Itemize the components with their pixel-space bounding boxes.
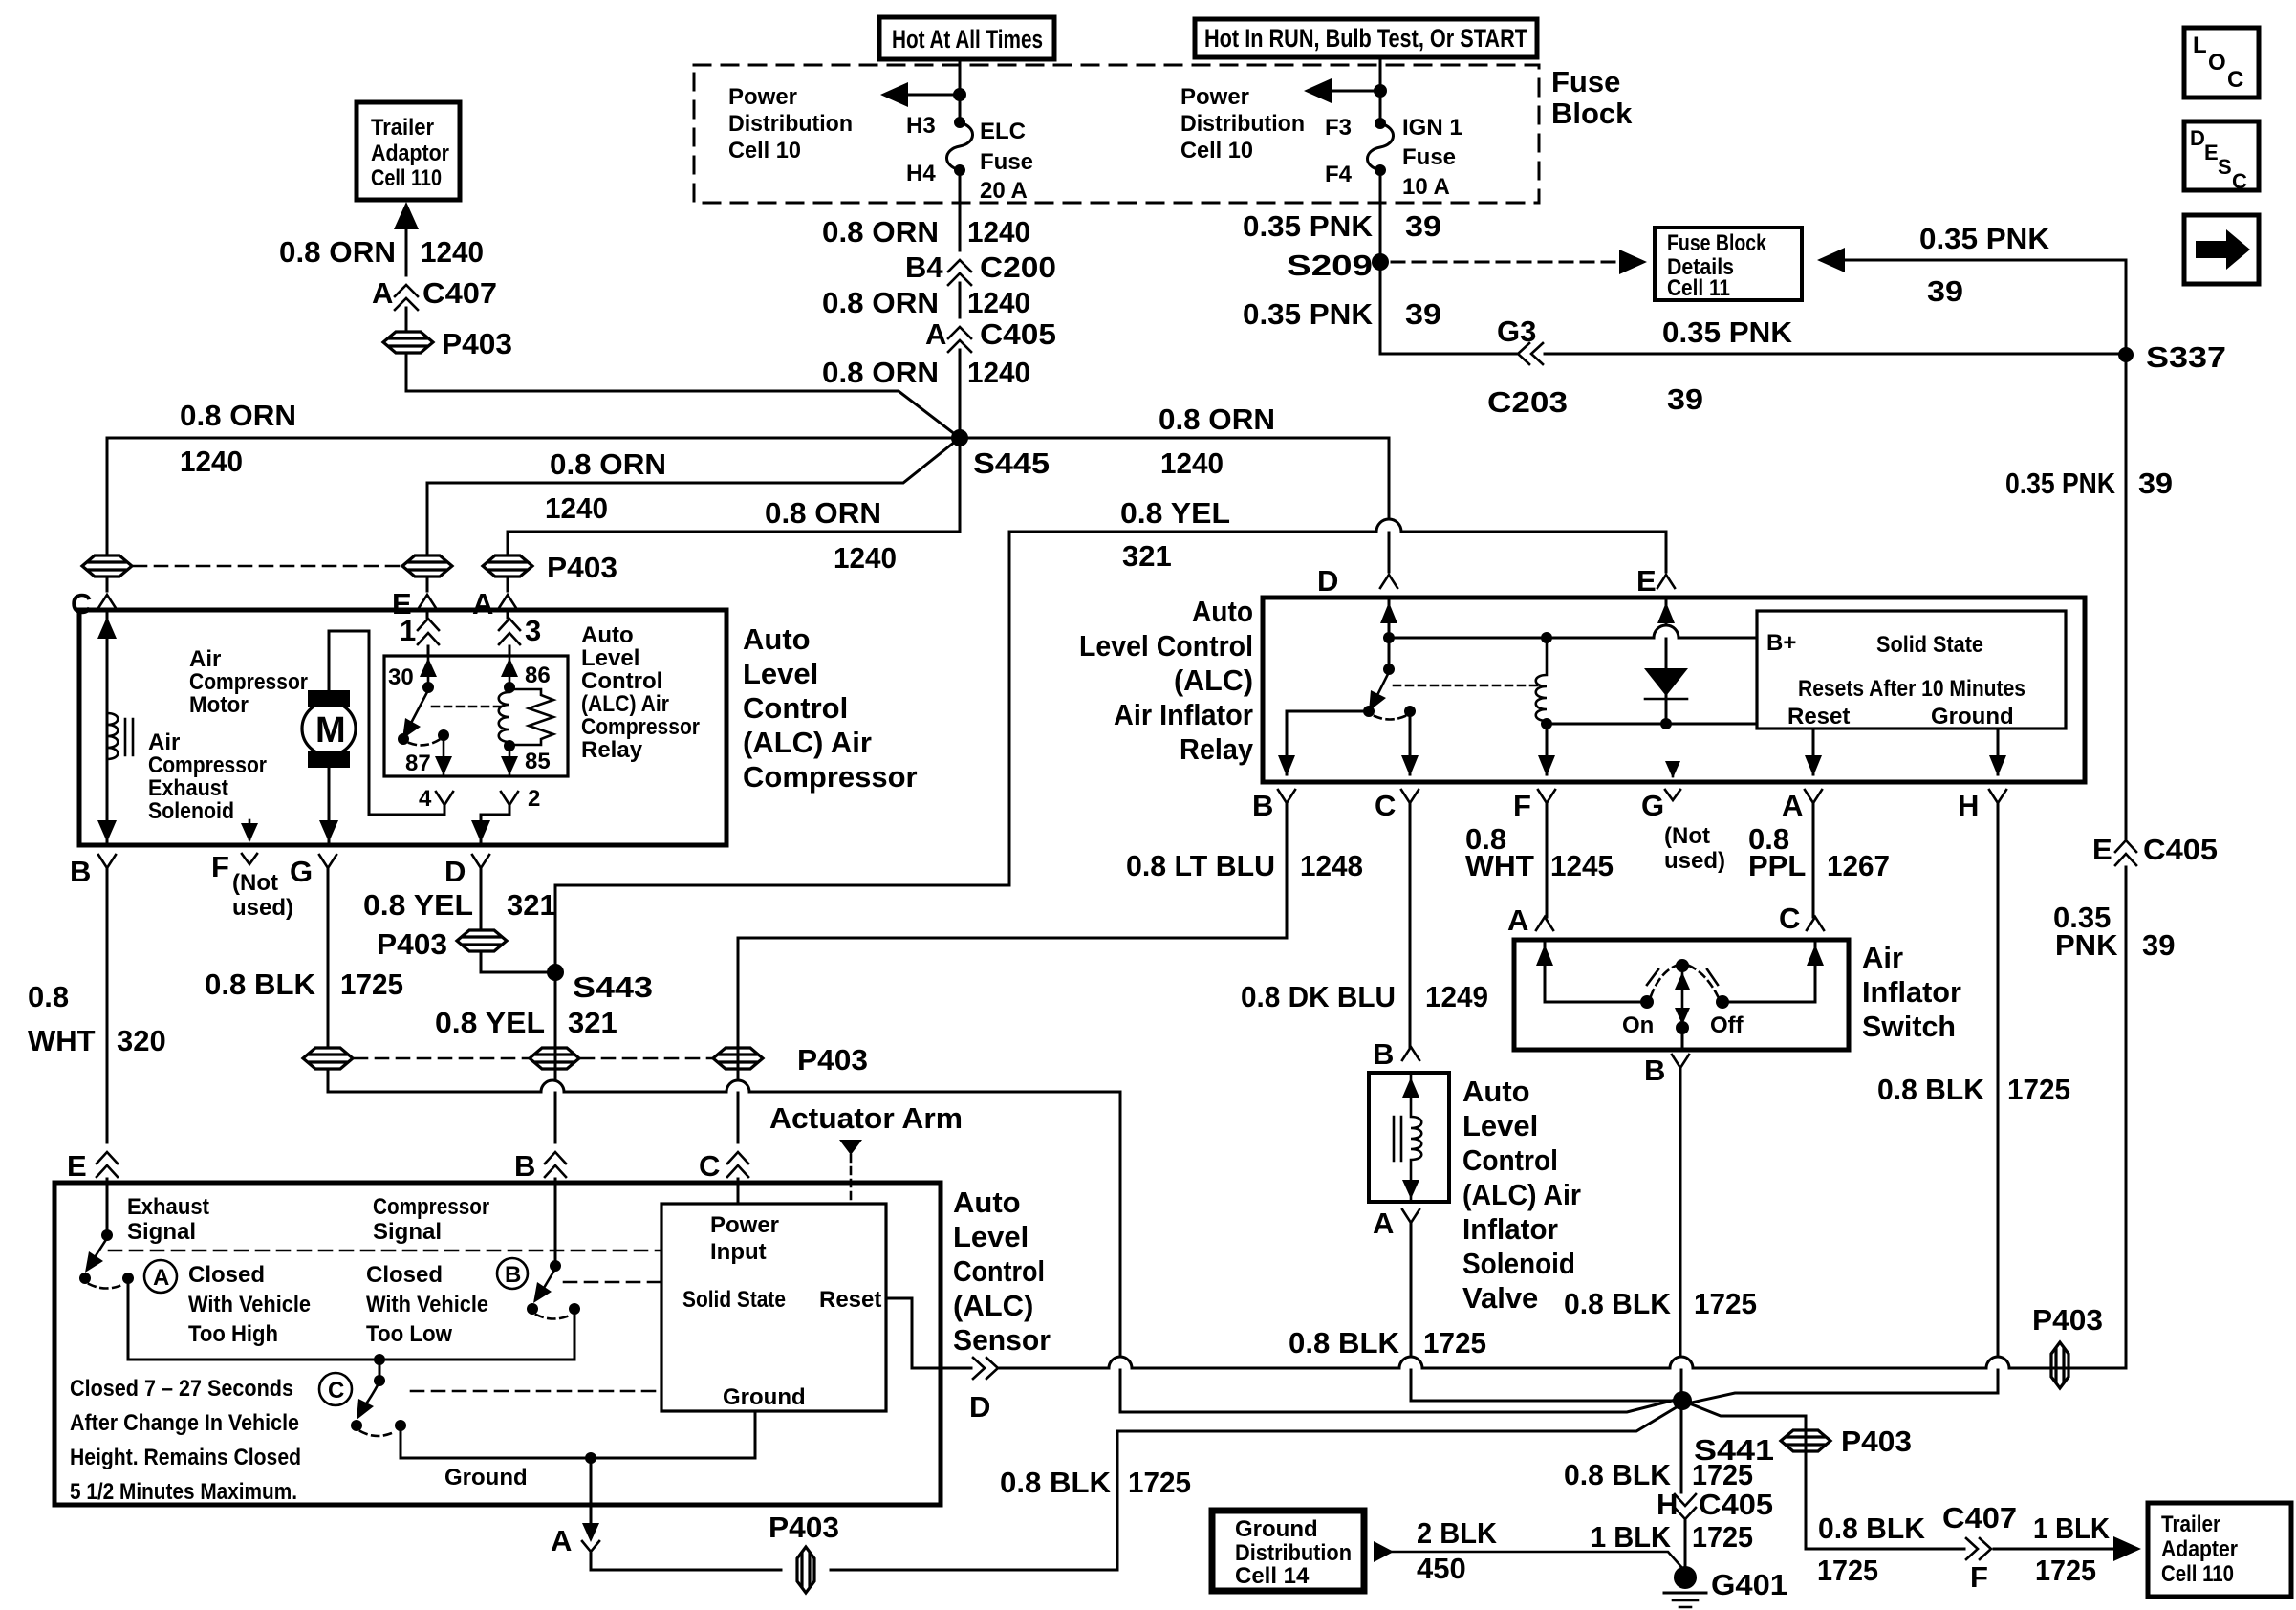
svg-text:1240: 1240 [1160,446,1224,480]
svg-text:On: On [1622,1012,1654,1038]
svg-text:Solid State: Solid State [1876,632,1983,658]
relay switch arm 30-87 [398,690,449,745]
box: Ground Distribution Cell 14 [1212,1511,1364,1591]
fuse block dashed box [694,65,1539,203]
pin F stub (not used) [241,820,258,842]
wire: S443 up to YEL junction [555,532,1009,972]
label: 0.35 PNK 39 (top right) [1919,222,2050,308]
svg-text:Compressor: Compressor [189,669,308,695]
connector pin 1 (double chevron) [400,614,439,647]
svg-text:Actuator Arm: Actuator Arm [769,1101,963,1135]
svg-text:Compressor: Compressor [581,714,700,740]
wire: main 0.8 ORN bus left of S445 [107,437,960,440]
svg-text:Motor: Motor [189,692,249,718]
svg-text:Signal: Signal [127,1219,196,1245]
svg-text:Ground: Ground [1235,1516,1318,1542]
sensor switch C (timer) [351,1360,406,1436]
svg-text:Distribution: Distribution [728,111,853,137]
svg-text:Power: Power [1180,84,1249,110]
svg-text:A: A [925,317,946,351]
svg-text:E: E [67,1149,87,1183]
pin D of compressor [444,855,489,930]
label: 2 BLK 450 [1417,1516,1498,1585]
svg-text:Distribution: Distribution [1180,111,1305,137]
hop bus over G-wire vertical [1109,1357,1132,1368]
svg-text:Cell 10: Cell 10 [1180,138,1253,163]
label: 0.8 PPL 1267 [1748,822,1890,882]
box: LOC [2184,28,2259,98]
svg-text:(ALC): (ALC) [1174,664,1253,697]
svg-text:G3: G3 [1497,315,1536,348]
svg-text:1240: 1240 [967,356,1030,389]
svg-text:0.35 PNK: 0.35 PNK [1919,222,2050,255]
svg-text:With Vehicle: With Vehicle [188,1292,311,1317]
wire: 0.8 ORN 1240 from fuse to S445 [959,170,962,438]
svg-text:Power: Power [728,84,797,110]
box: compressor relay [384,656,568,776]
svg-text:Closed: Closed [366,1262,443,1288]
svg-text:Switch: Switch [1862,1010,1956,1043]
node: rail junction [374,1354,385,1365]
svg-text:320: 320 [117,1024,166,1057]
svg-text:C203: C203 [1487,385,1568,419]
sensor dashed line compressor signal [564,1281,661,1284]
box: Trailer Adaptor Cell 110 [357,102,460,200]
svg-text:Signal: Signal [373,1219,442,1245]
pin H of inflator relay [1958,789,2006,822]
svg-text:1 BLK: 1 BLK [1591,1520,1672,1554]
wire: second ORN branch to pin E [427,438,960,553]
svg-text:C405: C405 [2143,833,2218,866]
label: 0.8 BLK 1725 (H wire) [1877,1073,2070,1106]
label: Auto Level Control (ALC) Air Compressor [743,622,918,794]
box: DESC [2184,121,2259,193]
svg-text:0.8 ORN: 0.8 ORN [822,215,939,249]
svg-text:0.8 BLK: 0.8 BLK [1564,1458,1672,1491]
diode (E branch) [1644,599,1688,729]
node S209 [1287,249,1389,282]
label: Exhaust Signal [127,1194,209,1245]
connector C405 pin H [1657,1488,1773,1521]
node S441 [1673,1391,1774,1467]
label: Closed 7-27 Seconds text block [70,1376,301,1505]
box: solid state B+ [1757,611,2066,729]
svg-text:C407: C407 [1942,1501,2017,1534]
svg-text:39: 39 [1667,382,1703,416]
svg-text:Trailer: Trailer [2161,1512,2220,1537]
hop on YEL over relay D wire [1376,519,1401,532]
label: 0.8 ORN 1240 (A branch) [765,496,897,575]
fuse ELC 20A [946,117,972,176]
svg-text:C: C [1779,902,1800,935]
relay coil 86-85 [499,658,551,775]
svg-text:0.8 BLK: 0.8 BLK [205,968,316,1001]
svg-text:1 BLK: 1 BLK [2033,1512,2111,1545]
svg-text:C: C [2232,169,2247,193]
svg-text:Reset: Reset [819,1287,881,1313]
svg-text:Air: Air [189,646,221,672]
relay pin 87 wire and arrow [405,735,452,776]
svg-text:Cell 10: Cell 10 [728,138,801,163]
wire: 0.8 PPL 1267 relay A to switch C [1812,803,1815,917]
svg-text:Inflator: Inflator [1462,1212,1558,1246]
svg-text:C: C [328,1378,344,1403]
label: Power Distribution Cell 10 (left) [728,84,853,163]
wire: sensor A ground run to S441 [591,1405,1679,1570]
connector P403 (trailer ground wire) [1781,1425,1912,1458]
wire: S443 down to sensor B [554,972,557,1142]
wire: arrow to power distribution (right fuse) [1304,78,1380,103]
wire: relay switch B contact to pin B [1278,711,1369,776]
svg-text:S209: S209 [1287,249,1373,282]
svg-text:39: 39 [2142,928,2175,962]
svg-text:(ALC) Air: (ALC) Air [1462,1178,1581,1211]
box: Fuse Block Details Cell 11 [1655,228,1802,301]
circle label C [319,1373,352,1405]
pin E of sensor [67,1149,118,1183]
hop bus over valve A wire [1399,1357,1422,1368]
svg-text:Compressor: Compressor [148,752,267,778]
label: Compressor Signal [373,1194,489,1245]
label: On / Off [1622,1012,1744,1038]
svg-text:C405: C405 [980,317,1056,351]
label: Air Compressor Exhaust Solenoid [148,729,267,824]
fuse IGN 1 10A [1367,118,1393,176]
label: 0.8 ORN 1240 (E branch) [545,447,666,525]
svg-text:86: 86 [525,663,551,688]
svg-text:0.8: 0.8 [28,980,69,1013]
svg-text:Level: Level [953,1220,1029,1253]
svg-text:1725: 1725 [2007,1073,2070,1106]
svg-text:Closed 7 – 27 Seconds: Closed 7 – 27 Seconds [70,1376,293,1402]
wire: 0.8 BLK 1725 switch B to S441 [1680,1068,1681,1492]
label: 0.8 ORN 1240 (above S445) [822,356,1030,389]
svg-text:39: 39 [2138,467,2173,500]
label: ELC Fuse 20 A [980,119,1033,204]
svg-text:C: C [699,1149,720,1183]
connector P403 row 2 (G/YEL/LTBLU wires) [303,1043,868,1077]
label: Air Compressor Motor [189,646,308,718]
box: ALC Sensor [54,1183,941,1505]
svg-text:Air: Air [148,729,180,755]
svg-text:P403: P403 [547,551,617,584]
pin B of solenoid valve [1373,1037,1419,1071]
box: next-page arrow [2184,215,2259,284]
svg-text:Relay: Relay [1180,732,1254,766]
label: 0.8 BLK 1725 (G wire) [205,968,403,1001]
switch A internal wire to On contact [1536,943,1654,1009]
connector C407 pin F [1942,1501,2017,1594]
label: 0.8 ORN 1240 (trailer branch) [279,235,484,269]
svg-text:0.8 BLK: 0.8 BLK [1877,1073,1985,1106]
svg-text:0.8 DK BLU: 0.8 DK BLU [1241,980,1396,1013]
wire: P403 to S443 [481,951,555,972]
label: 0.8 BLK 1725 (S441 to C405) [1564,1458,1753,1491]
svg-text:1240: 1240 [834,541,897,575]
wire: trailer branch horizontal to S445 [406,353,960,438]
svg-text:39: 39 [1927,274,1963,308]
node: ELC feed junction [953,88,966,101]
svg-text:0.8 ORN: 0.8 ORN [765,496,881,530]
svg-text:Level: Level [581,645,639,671]
svg-text:A: A [1782,789,1803,822]
svg-text:C: C [1375,789,1396,822]
svg-text:Resets After 10 Minutes: Resets After 10 Minutes [1798,676,2025,702]
wire: sensor C pin to Power Input [737,1179,740,1204]
svg-text:F4: F4 [1325,162,1353,187]
pin A of sensor (output arrow) [551,1523,599,1557]
svg-text:Level: Level [743,657,818,690]
box: Trailer Adapter Cell 110 [2148,1503,2291,1597]
svg-text:1725: 1725 [1817,1554,1878,1587]
svg-text:Level: Level [1462,1109,1538,1142]
label: Power Distribution Cell 10 (right) [1180,84,1305,163]
svg-text:321: 321 [1122,539,1172,573]
svg-text:1725: 1725 [1692,1520,1753,1554]
pin A of solenoid valve [1373,1207,1419,1240]
svg-text:0.8 LT BLU: 0.8 LT BLU [1126,849,1275,882]
hop top rail over E wire [1654,625,1679,638]
pin C of air inflator switch [1779,902,1824,935]
svg-text:0.8 ORN: 0.8 ORN [550,447,666,481]
sensor switch B (compressor) [527,1179,580,1319]
node S445 [951,429,1050,480]
pin B of compressor (below box) [70,855,116,1142]
wire: 0.35 PNK 39 G3/C203 run to S337 [1380,353,2126,356]
svg-text:Level Control: Level Control [1079,629,1253,663]
svg-text:ELC: ELC [980,119,1026,144]
pin E of inflator relay [1636,564,1675,598]
svg-text:B: B [1373,1037,1394,1071]
svg-text:1725: 1725 [1694,1287,1757,1320]
wire: 0.8 BLK 1725 relay H to S441 [1687,803,1998,1403]
svg-text:2 BLK: 2 BLK [1417,1516,1498,1550]
label: Fuse Block [1551,65,1633,130]
label: 0.8 ORN 1240 (above C200) [822,215,1030,249]
svg-text:0.8 ORN: 0.8 ORN [822,356,939,389]
wire: 0.8 LT BLU 1248 relay B to sensor C [738,803,1287,1142]
svg-text:E: E [2204,141,2219,164]
svg-text:85: 85 [525,749,551,774]
svg-text:O: O [2208,50,2226,76]
relay D internal wire [1380,599,1397,675]
svg-text:1: 1 [400,614,416,647]
label: Closed With Vehicle Too High [188,1262,311,1347]
svg-text:Fuse: Fuse [980,149,1033,175]
svg-text:A: A [551,1524,572,1557]
wire: pin1 stub from E [426,610,429,618]
svg-text:H3: H3 [906,113,936,139]
svg-text:Too High: Too High [188,1321,278,1347]
svg-text:Reset: Reset [1787,704,1850,729]
svg-text:Distribution: Distribution [1235,1540,1352,1566]
label: 0.8 ORN 1240 (above C405) [822,286,1030,319]
pin A of compressor [472,587,516,620]
svg-text:A: A [153,1265,169,1291]
switch toggle (common) [1647,959,1718,1050]
svg-text:1248: 1248 [1300,849,1363,882]
svg-text:(ALC): (ALC) [953,1289,1033,1322]
arrow into trailer adapter [2113,1536,2141,1561]
connector C200 pin B4 [905,250,1056,285]
svg-text:Exhaust: Exhaust [148,775,228,801]
label: F3 F4 [1325,115,1353,187]
relay resistor [509,689,553,745]
box: Hot In RUN, Bulb Test, Or START [1195,19,1537,57]
node: IGN1 feed junction [1374,84,1387,98]
svg-text:L: L [2193,33,2207,58]
wire: ELC feed from Hot At All Times [959,59,962,122]
connector P403 (bus capsule) [2032,1303,2103,1388]
box: ALC Air Inflator Relay [1263,598,2085,782]
relay internal top rail to B+ [1389,637,1757,640]
svg-text:(Not: (Not [1664,823,1710,849]
label: 0.8 WHT 1245 [1465,822,1614,882]
svg-text:B: B [505,1262,521,1288]
label: Closed With Vehicle Too Low [366,1262,488,1347]
wire: Ground output to pin H [1989,729,2006,776]
pin C of compressor [71,587,116,620]
svg-text:39: 39 [1405,209,1441,243]
svg-text:0.8 ORN: 0.8 ORN [1159,402,1275,436]
svg-text:B: B [70,855,91,888]
svg-text:D: D [969,1390,990,1424]
connector: sensor D output chevrons [969,1358,998,1424]
svg-text:Relay: Relay [581,737,643,763]
label: Air Inflator Switch [1862,941,1961,1043]
svg-text:After Change In Vehicle: After Change In Vehicle [70,1410,299,1436]
svg-text:1240: 1240 [545,491,608,525]
label: 1 BLK 1725 (to trailer) [2033,1512,2111,1587]
svg-text:1249: 1249 [1425,980,1488,1013]
actuator arm dashed link [839,1140,862,1203]
svg-text:C405: C405 [1699,1488,1773,1521]
wire: Reset output to pin A [1805,729,1822,776]
switch C internal wire to Off contact [1716,943,1824,1009]
svg-text:G: G [290,855,313,888]
svg-text:0.8 BLK: 0.8 BLK [1564,1287,1672,1320]
label: 0.35 PNK 39 (right vertical lower) [2053,901,2175,962]
svg-text:Cell 110: Cell 110 [371,165,442,191]
svg-text:0.35 PNK: 0.35 PNK [2005,467,2116,500]
svg-text:WHT: WHT [1465,849,1534,882]
wire: 0.8 ORN 1240 to trailer adaptor with arrow [394,202,419,332]
svg-text:1267: 1267 [1827,849,1890,882]
svg-text:0.8 ORN: 0.8 ORN [279,235,396,269]
label: 0.8 LT BLU 1248 [1126,849,1363,882]
svg-text:F3: F3 [1325,115,1352,141]
svg-text:Valve: Valve [1462,1281,1538,1315]
label: 0.8 YEL 321 (top run) [1120,496,1230,573]
wire: exhaust solenoid branch (internal left) [97,613,117,842]
connector P403 (D wire) [377,927,507,961]
svg-text:E: E [2092,833,2112,866]
svg-text:0.35 PNK: 0.35 PNK [1662,315,1793,349]
svg-text:Compressor: Compressor [743,760,918,794]
pin B of sensor [514,1149,566,1183]
sensor dashed line exhaust signal [109,1250,661,1252]
wire: C contact to ground rail [401,1413,755,1458]
relay dashed actuate line [1394,685,1539,687]
motor M (air compressor motor) [302,690,356,768]
wire: 0.35 PNK from S337 to Fuse Block Details with arrow [1817,248,2126,838]
svg-text:Inflator: Inflator [1862,975,1961,1009]
svg-text:A: A [1507,903,1528,937]
ground G401 [1664,1566,1787,1607]
wire: C405 H to G401 [1684,1521,1687,1568]
label: 0.35 PNK 39 (right vertical upper) [2005,467,2173,500]
pin E of compressor [392,587,436,620]
node S337 [2118,340,2226,374]
svg-text:C200: C200 [980,250,1056,284]
svg-text:Auto: Auto [1192,595,1253,628]
svg-text:321: 321 [507,888,556,922]
svg-text:B: B [1644,1054,1665,1087]
wire: 0.8 BLK 1725 valve A to S441 [1411,1223,1675,1401]
svg-text:Ground: Ground [444,1465,528,1490]
svg-text:20 A: 20 A [980,178,1028,204]
svg-text:0.8 BLK: 0.8 BLK [1289,1326,1400,1360]
svg-text:G: G [1641,789,1664,822]
svg-text:0.8 BLK: 0.8 BLK [1000,1466,1112,1499]
svg-text:Hot At All Times: Hot At All Times [892,25,1043,54]
svg-text:Ground: Ground [723,1384,806,1410]
label: 0.35 PNK 39 (on C203 run) [1662,315,1793,416]
svg-text:Adapter: Adapter [2161,1536,2238,1562]
relay coil [1536,632,1552,729]
wire: 0.8 WHT 1245 relay F to switch A [1546,803,1549,917]
svg-text:Fuse Block: Fuse Block [1667,230,1767,256]
connector P403 (trailer wire) [383,327,512,360]
svg-text:Power: Power [710,1212,779,1238]
svg-text:D: D [2190,126,2205,150]
circle label A [144,1260,177,1293]
svg-text:Auto: Auto [953,1186,1021,1219]
svg-text:B: B [514,1149,535,1183]
wire: A/B contacts to common rail [128,1278,574,1360]
svg-text:(Not: (Not [232,870,278,896]
hop G wire over LT BLU at 772 [726,1080,749,1092]
svg-text:0.8 YEL: 0.8 YEL [435,1006,545,1039]
svg-text:Solenoid: Solenoid [148,798,234,824]
svg-text:Control: Control [1462,1143,1558,1177]
wire: sensor Reset to D output [886,1298,941,1368]
svg-text:1240: 1240 [967,215,1030,249]
connector C407 pin A [372,276,497,310]
wire: sensor ground junction to pin A [590,1458,593,1526]
label: 0.8 BLK 1725 (switch B wire) [1564,1287,1757,1320]
svg-text:Auto: Auto [743,622,811,656]
svg-text:P403: P403 [442,327,512,360]
svg-text:Too Low: Too Low [366,1321,452,1347]
svg-text:S337: S337 [2146,340,2226,374]
svg-text:Off: Off [1710,1012,1744,1038]
pin G of inflator relay (not used) [1641,761,1725,874]
pin B of inflator relay [1252,789,1295,822]
svg-text:0.8 YEL: 0.8 YEL [1120,496,1230,530]
wire: coil to pin F [1538,724,1555,776]
label: Auto Level Control (ALC) Air Inflator Relay [1079,595,1254,766]
relay switch arm [1363,672,1416,720]
label: 0.8 ORN 1240 (right of S445) [1159,402,1275,480]
pin D of inflator relay [1317,564,1397,598]
svg-text:S445: S445 [973,446,1050,480]
svg-text:WHT: WHT [28,1024,96,1057]
wire: pin1 to relay 30 [427,646,430,656]
wire: E pin stub [426,577,429,591]
pin A of air inflator switch [1507,903,1553,937]
relay bottom rail to B+ [1547,723,1757,726]
